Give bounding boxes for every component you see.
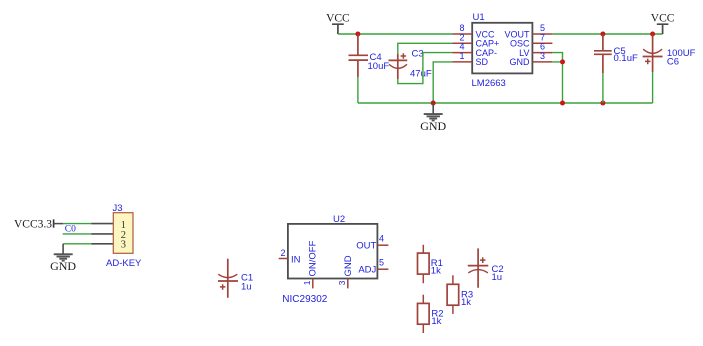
resistor R1 1k [418, 245, 443, 283]
wire VCC to U1 pin 8 [338, 33, 453, 35]
resistor R2 1k [418, 295, 444, 333]
wire C4 to GND rail [357, 77, 359, 103]
capacitor C1 1u (polarized) [218, 259, 253, 298]
junction VOUT/C5 [600, 32, 605, 37]
power VCC (top-left) [326, 13, 350, 34]
svg-text:1k: 1k [461, 297, 471, 308]
resistor R3 1k [447, 275, 473, 314]
wire C3 bottom to U1 pin4 CAP- [398, 53, 453, 84]
junction rail/GND symbol [431, 101, 436, 106]
pin 7 OSC [510, 32, 552, 48]
junction VOUT/C6 [650, 32, 655, 37]
pin 8 VCC [453, 23, 496, 39]
svg-text:2: 2 [280, 248, 285, 258]
wire VCC3.3 to J3 pin1 [63, 223, 91, 225]
svg-text:LM2663: LM2663 [472, 78, 506, 89]
pin 5 ADJ [358, 258, 388, 276]
junction rail/pin3 branch [560, 101, 565, 106]
wire U1 pin2 CAP+ to C3 top [398, 43, 453, 53]
pin 2 CAP+ [453, 32, 500, 48]
svg-text:VCC: VCC [651, 13, 675, 25]
svg-text:3: 3 [540, 51, 545, 61]
svg-text:0.1uF: 0.1uF [614, 53, 638, 64]
svg-text:ON/OFF: ON/OFF [308, 240, 319, 276]
U2 body [288, 224, 378, 279]
svg-text:NIC29302: NIC29302 [282, 294, 327, 305]
connector J3 AD-KEY [91, 203, 142, 269]
wire GND to J3 pin3 [63, 243, 91, 245]
svg-text:1k: 1k [431, 316, 441, 327]
svg-text:3: 3 [121, 240, 126, 251]
J3 body [113, 213, 133, 254]
svg-text:AD-KEY: AD-KEY [106, 258, 142, 269]
capacitor C6 100UF (polarized) [643, 34, 696, 72]
capacitor C3 47uF (polarized) [389, 48, 432, 79]
pin 2 IN [279, 248, 301, 265]
svg-text:GND: GND [420, 119, 446, 133]
svg-text:OUT: OUT [356, 240, 376, 251]
svg-text:1k: 1k [431, 266, 441, 277]
J3 pin 1 stub [91, 223, 113, 225]
svg-text:VCC: VCC [326, 13, 350, 25]
svg-text:GND: GND [510, 57, 531, 67]
svg-text:1u: 1u [241, 282, 252, 293]
J3 pin 2 stub [91, 233, 113, 235]
J3 pin 3 stub [91, 243, 113, 245]
svg-text:1: 1 [459, 51, 464, 61]
wire C6 to rail [652, 72, 654, 103]
svg-text:IN: IN [291, 254, 301, 265]
wire U1 pin1 SD to GND rail [433, 62, 452, 103]
svg-text:10uF: 10uF [368, 61, 390, 72]
svg-text:3: 3 [337, 280, 347, 285]
pin 4 CAP- [453, 42, 498, 58]
pin 4 OUT [356, 234, 388, 252]
junction VCC/C4 [355, 32, 360, 37]
svg-text:C3: C3 [412, 48, 424, 59]
capacitor C2 1u (polarized) [468, 248, 504, 287]
svg-text:C6: C6 [667, 56, 679, 67]
ground GND (J3) [50, 244, 76, 273]
power VCC (top-right) [651, 13, 675, 34]
wire U1 pin3 GND to rail [552, 62, 562, 103]
svg-text:4: 4 [379, 234, 384, 244]
svg-text:J3: J3 [113, 203, 123, 214]
svg-text:ADJ: ADJ [358, 264, 376, 275]
wire C0 to J3 pin2 [63, 233, 92, 235]
svg-text:U2: U2 [333, 214, 345, 225]
IC U1 LM2663 [453, 12, 553, 89]
power port VCC3.3 [14, 218, 63, 230]
pin 3 GND [510, 51, 553, 67]
IC U2 NIC29302 [279, 214, 389, 305]
wire GND rail [358, 102, 653, 104]
wire U1 pin5 VOUT to VCC (top-right) [552, 33, 662, 35]
capacitor C5 0.1uF [594, 34, 638, 73]
svg-text:1: 1 [302, 280, 312, 285]
pin 1 ON/OFF [302, 240, 319, 288]
capacitor C4 10uF [349, 34, 390, 77]
wire U1 pin6 LV to node [552, 53, 562, 62]
svg-text:1u: 1u [492, 272, 503, 283]
svg-text:5: 5 [379, 258, 384, 268]
U1 body [472, 23, 532, 74]
svg-text:U1: U1 [473, 12, 485, 23]
pin 1 SD [453, 51, 489, 67]
pin 6 LV [519, 42, 552, 58]
svg-text:GND: GND [50, 259, 76, 273]
wire C5 to rail [602, 73, 604, 103]
svg-text:GND: GND [343, 255, 354, 276]
pin 3 GND [337, 255, 354, 288]
junction rail/C5 [600, 101, 605, 106]
junction LV/GND [560, 59, 565, 64]
pin 5 VOUT [504, 23, 552, 39]
ground GND (top circuit) [420, 103, 446, 133]
svg-text:VCC3.3: VCC3.3 [14, 218, 52, 230]
svg-text:SD: SD [476, 57, 489, 67]
svg-text:47uF: 47uF [410, 68, 432, 79]
